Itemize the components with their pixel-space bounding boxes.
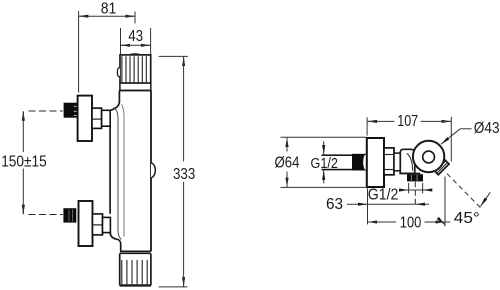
dim Ø43 text	[474, 120, 500, 137]
dim 333 bottom extension line	[159, 286, 188, 288]
dim 333 dimension line	[183, 57, 185, 287]
dim 43 dimension line	[121, 44, 151, 46]
svg-text:63: 63	[326, 196, 343, 213]
dim 43 text	[128, 28, 143, 45]
dim 150±15 dimension line	[22, 111, 24, 214]
dim 107 text	[397, 113, 418, 130]
right view escutcheon flange Ø64	[367, 138, 384, 187]
dim G1/2 pipe arrows	[323, 141, 325, 183]
valve body	[400, 149, 415, 173]
body neck below knob	[119, 91, 151, 252]
dim Ø64 text	[275, 155, 300, 172]
bottom knob ribs	[122, 260, 147, 284]
lower escutcheon flange	[79, 201, 93, 246]
dim Ø43 leader	[441, 129, 472, 145]
top knob dome bump	[130, 54, 140, 55]
svg-text:45°: 45°	[454, 210, 480, 227]
shower outlet thread (black)	[407, 174, 423, 181]
dim G1/2 outlet arrows	[400, 189, 432, 191]
dim 150±15 text	[1, 153, 47, 170]
svg-text:G1/2: G1/2	[311, 155, 338, 172]
right view connecting pipe	[394, 153, 400, 171]
wall supply pipe	[322, 155, 353, 169]
svg-text:150±15: 150±15	[1, 153, 47, 170]
upper union hex	[92, 108, 102, 128]
svg-text:81: 81	[101, 1, 117, 18]
dim 107 dimension line	[368, 120, 451, 122]
top knob body	[120, 55, 151, 83]
body inner contour line B	[122, 104, 124, 236]
dim 43 extension line left	[120, 28, 122, 54]
svg-text:100: 100	[400, 214, 422, 231]
lower hex nut (black)	[63, 208, 76, 222]
dim 100 dimension line	[368, 221, 451, 223]
top knob lower band	[119, 83, 151, 90]
dim 107 extension line right	[450, 117, 452, 162]
knob circle Ø43	[413, 141, 444, 172]
45° arc arrow at ray	[481, 192, 491, 206]
right view hex nut (black)	[352, 154, 368, 171]
knob inner circle	[423, 151, 435, 163]
svg-text:Ø43: Ø43	[474, 120, 500, 137]
45° arc arrow at vertical line	[438, 218, 445, 225]
lower wall centerline (dashed)	[29, 214, 63, 216]
dim Ø64 dimension line	[286, 138, 288, 188]
body inner contour line A	[114, 107, 122, 240]
45° dashed ray	[447, 174, 483, 210]
G1/2 pipe text	[311, 155, 338, 172]
dim 81 extension line left	[78, 11, 80, 93]
svg-text:333: 333	[173, 166, 195, 183]
upper hex nut (black)	[64, 103, 78, 118]
dim 333 top extension line	[159, 55, 188, 57]
dim 81 dimension line	[79, 15, 135, 17]
bottom knob bottom edge	[120, 284, 151, 286]
dim G1/2 outlet extension lines	[409, 183, 423, 193]
lower union hex	[93, 214, 103, 235]
dim 100 text	[400, 214, 422, 231]
upper escutcheon flange	[78, 96, 92, 141]
valve body crescent highlight	[407, 153, 413, 171]
dim G1/2 outlet text	[368, 187, 399, 204]
svg-text:Ø64: Ø64	[275, 155, 300, 172]
upper wall centerline (dashed)	[29, 110, 63, 112]
bottom knob body	[120, 254, 151, 286]
45° reference vertical line	[444, 177, 446, 227]
dim 63 text	[326, 196, 343, 213]
body outer left edge	[109, 110, 111, 213]
dim 333 text	[173, 166, 195, 183]
dim 81 extension line right	[134, 12, 136, 24]
top knob left tab button	[117, 68, 120, 77]
upper union collar	[102, 110, 111, 126]
lower union collar	[103, 217, 111, 232]
dim Ø64 extension lines	[281, 137, 367, 187]
dim 63 dimension line	[347, 203, 429, 205]
dim 45° text	[454, 210, 480, 227]
outlet centerline (dashed)	[414, 182, 416, 207]
dim 43 extension line right	[150, 28, 152, 54]
dim 107 extension line left	[366, 117, 368, 135]
body lower-left curve to base	[110, 232, 121, 251]
dim 100 left extension line	[367, 188, 369, 224]
svg-text:43: 43	[128, 28, 143, 45]
top knob ribs	[122, 56, 146, 83]
right view union hex	[384, 148, 394, 175]
body left shoulder curve	[110, 102, 119, 111]
svg-text:G1/2: G1/2	[368, 187, 399, 204]
base double line	[120, 251, 151, 253]
right side eco button bump	[151, 163, 155, 179]
dim 81 text	[101, 1, 117, 18]
45° swivel outlet fitting	[433, 159, 449, 175]
valve body bottom line	[399, 172, 420, 174]
svg-text:107: 107	[397, 113, 418, 130]
